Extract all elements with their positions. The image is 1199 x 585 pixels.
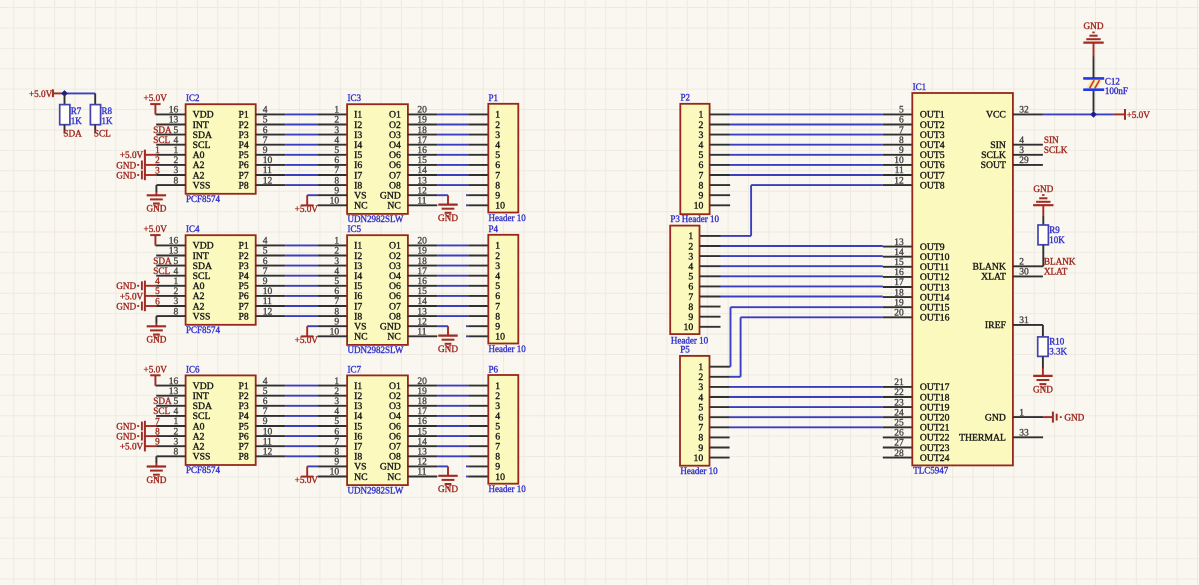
svg-text:20: 20 [894, 309, 904, 319]
svg-text:NC: NC [387, 472, 400, 483]
svg-text:28: 28 [894, 449, 904, 459]
svg-text:5: 5 [334, 277, 339, 287]
wire IC4 VSS pin 8 to ground [156, 316, 185, 326]
svg-text:Header 10: Header 10 [680, 466, 718, 476]
wire P3 pin 3 stub [700, 255, 721, 257]
wire IC1 SCLK pin 3 stub [1013, 154, 1043, 156]
svg-text:P2: P2 [681, 93, 691, 103]
wire IC1 OUT23 stub [883, 447, 913, 449]
wire P2 pin 6 to IC1 OUT6 [730, 164, 912, 166]
svg-text:1K: 1K [71, 116, 83, 126]
net label 4 [155, 277, 160, 287]
wire IC3 NC pin 10 stub [318, 204, 348, 206]
svg-text:GND: GND [116, 170, 136, 180]
svg-text:Header 10: Header 10 [671, 336, 709, 346]
wire P3 pin 7 stub [700, 296, 721, 298]
svg-text:22: 22 [894, 388, 904, 398]
svg-text:R8: R8 [102, 106, 113, 116]
power port +5.0V at IC2 VDD [144, 93, 168, 114]
net label SIN [1044, 135, 1059, 145]
wire IC6 P8 to IC7 I8 [256, 455, 347, 457]
svg-text:NC: NC [354, 201, 367, 212]
wire P3 pin 6 to IC1 OUT13 [721, 285, 913, 288]
svg-text:+5.0V: +5.0V [29, 89, 53, 99]
net label 7 [155, 417, 160, 427]
svg-text:8: 8 [334, 176, 339, 186]
wire IC2 address pin 2 [156, 164, 185, 166]
net label SCL (below R8) [94, 129, 111, 139]
svg-text:4: 4 [334, 407, 339, 417]
power port +5.0V (R7/R8 supply) [29, 89, 65, 99]
svg-text:GND: GND [438, 484, 458, 494]
wire IC2 SDA pin 5 stub [156, 134, 185, 136]
svg-text:PCF8574: PCF8574 [186, 325, 221, 335]
svg-text:2: 2 [334, 116, 339, 126]
svg-text:SCL: SCL [153, 406, 170, 416]
wire P3 pin 8 stub [700, 306, 721, 308]
wire IC3 O5 to P1 pin 5 [408, 154, 488, 156]
wire IC5 O4 to P4 pin 4 [408, 275, 488, 277]
svg-text:UDN2982SLW: UDN2982SLW [348, 214, 404, 224]
svg-text:IC5: IC5 [348, 224, 362, 234]
wire IC5 VS pin 9 [307, 325, 347, 327]
capacitor C12 100nF [1083, 76, 1128, 111]
svg-text:10: 10 [694, 201, 704, 212]
svg-text:GND: GND [116, 281, 136, 291]
svg-text:R7: R7 [71, 106, 82, 116]
svg-text:1: 1 [334, 106, 339, 116]
connector P1 Header 10 [488, 93, 526, 223]
wire IC2 P2 to IC3 I2 [256, 124, 347, 126]
wire IC3 O6 to P1 pin 6 [408, 164, 488, 166]
svg-text:23: 23 [894, 398, 904, 408]
net label SCL at IC2 [153, 135, 170, 145]
net label 2 [155, 156, 160, 166]
wire P3 pin 2 stub [700, 245, 721, 247]
wire P5 pin 7 stub [710, 426, 730, 428]
wire P3 pin 4 to IC1 OUT11 [721, 265, 913, 268]
svg-text:Header 10: Header 10 [489, 344, 527, 354]
wire P5 pin 3 to IC1 OUT17 [730, 386, 913, 388]
wire IC7 NC pin 10 stub [318, 476, 348, 478]
wire P3 pin 9 stub [700, 316, 721, 318]
wire IC6 INT pin 13 stub [156, 395, 185, 397]
wire P3 pin 4 stub [700, 265, 721, 267]
svg-text:NC: NC [387, 332, 400, 343]
driver IC3 UDN2982SLW [330, 93, 428, 224]
svg-text:1: 1 [334, 377, 339, 387]
wire IC2 SCL pin 4 stub [156, 144, 185, 146]
svg-text:SCL: SCL [153, 266, 170, 276]
svg-text:P8: P8 [238, 180, 248, 191]
wire IC6 address pin 1 [156, 425, 185, 427]
svg-text:12: 12 [894, 176, 904, 186]
wire P2 pin 3 stub [710, 134, 731, 136]
svg-text:PCF8574: PCF8574 [186, 194, 221, 204]
svg-text:P3: P3 [670, 214, 680, 224]
wire IC2 VSS pin 8 to ground [156, 185, 185, 195]
svg-text:IREF: IREF [985, 320, 1007, 331]
svg-text:NC: NC [387, 201, 400, 212]
svg-text:THERMAL: THERMAL [959, 433, 1006, 444]
svg-text:C12: C12 [1105, 76, 1120, 86]
power port GND at IC2 pin 2 [116, 160, 156, 171]
resistor R7 1K [60, 105, 83, 134]
driver IC5 UDN2982SLW [330, 224, 428, 355]
svg-text:GND: GND [1084, 21, 1104, 31]
net label 5 [155, 287, 160, 297]
wire P5 pin 2 stub [710, 376, 730, 378]
op-amp expander IC2 PCF8574 [169, 93, 273, 204]
svg-text:18: 18 [894, 288, 904, 298]
net label 9 [155, 438, 160, 448]
svg-text:SDA: SDA [153, 125, 172, 135]
wire C12 to ground [1093, 43, 1095, 78]
svg-text:9: 9 [899, 146, 904, 156]
svg-text:7: 7 [334, 166, 339, 176]
driver IC7 UDN2982SLW [330, 364, 428, 495]
svg-text:GND: GND [116, 160, 136, 170]
net label SCLK [1044, 145, 1068, 155]
wire IC2 P3 to IC3 I3 [256, 134, 347, 136]
wire IC1 THERMAL pin 33 stub [1013, 436, 1043, 438]
net label 1 [155, 146, 160, 156]
wire IC5 O8 to P4 pin 8 [408, 315, 488, 317]
svg-text:100nF: 100nF [1105, 86, 1128, 96]
wire IC5 O6 to P4 pin 6 [408, 295, 488, 297]
wire IC6 P3 to IC7 I3 [256, 405, 347, 407]
ground under IC6 [146, 467, 166, 485]
svg-text:10: 10 [694, 453, 704, 464]
wire P2 pin 1 stub [710, 113, 731, 115]
wire IC4 VDD pin 16 [155, 244, 185, 246]
wire IC3 O2 to P1 pin 2 [408, 124, 488, 126]
wire P1 pin 10 stub [466, 204, 488, 206]
power port GND at IC6 pin 1 [116, 421, 156, 432]
svg-text:IC4: IC4 [186, 224, 200, 234]
svg-text:IC3: IC3 [348, 93, 362, 103]
svg-text:SIN: SIN [1044, 135, 1059, 145]
svg-text:OUT16: OUT16 [920, 313, 950, 324]
svg-text:+5.0V: +5.0V [144, 224, 168, 234]
power port +5.0V at IC1 VCC [1114, 109, 1150, 120]
wire IC5 GND pin 12 to ground [408, 326, 448, 335]
svg-text:19: 19 [894, 298, 904, 308]
wire IC2 P8 to IC3 I8 [256, 184, 347, 186]
svg-text:P5: P5 [680, 345, 690, 355]
ground at IC3 GND [438, 205, 458, 223]
svg-text:+5.0V: +5.0V [120, 291, 144, 301]
wire IC6 P1 to IC7 I1 [256, 385, 347, 387]
svg-text:XLAT: XLAT [1044, 267, 1068, 277]
net label SDA at IC4 [153, 256, 172, 266]
ground at IC5 GND [438, 336, 458, 354]
wire P2 pin 5 to IC1 OUT5 [730, 154, 912, 156]
power port +5.0V at IC6 VDD [144, 364, 168, 385]
wire IC1 GND pin 1 [1013, 416, 1043, 418]
resistor R8 1K [90, 105, 113, 134]
wire IC4 P3 to IC5 I3 [256, 265, 347, 267]
wire IC4 P1 to IC5 I1 [256, 244, 347, 246]
wire IC3 O7 to P1 pin 7 [408, 174, 488, 176]
resistor R9 10K [1038, 225, 1065, 245]
resistor R10 3.3K [1038, 337, 1068, 357]
wire IC6 address pin 2 [156, 435, 185, 437]
svg-text:6: 6 [334, 427, 339, 437]
wire IC4 P7 to IC5 I7 [256, 305, 347, 307]
svg-text:11: 11 [895, 166, 904, 176]
svg-text:3: 3 [334, 257, 339, 267]
wire P5 pin 1 to IC1 OUT15 [730, 307, 913, 367]
wire IC4 P6 to IC5 I6 [256, 295, 347, 297]
wire IC2 P7 to IC3 I7 [256, 174, 347, 176]
wire P2 pin 7 to IC1 OUT7 [730, 174, 912, 176]
wire R8 pin 1 [94, 93, 96, 104]
wire IC1 VCC pin 32 to +5.0V [1013, 113, 1114, 115]
wire IC1 BLANK pin 2 stub [1013, 265, 1043, 267]
wire IC3 NC pin 11 stub [408, 204, 437, 206]
svg-text:VSS: VSS [193, 180, 211, 191]
power port GND at IC6 pin 2 [116, 431, 156, 442]
wire P2 pin 8 stub [710, 184, 731, 186]
wire IC2 address pin 1 [156, 154, 185, 156]
wire IC7 VS pin 9 [307, 465, 347, 467]
wire P1 pin 9 stub [466, 194, 488, 196]
wire P5 pin 6 stub [710, 416, 730, 418]
wire P2 pin 2 stub [710, 124, 731, 126]
svg-text:P4: P4 [489, 224, 499, 234]
wire P3 pin 5 to IC1 OUT12 [721, 275, 913, 278]
net label SDA (below R7) [63, 129, 82, 139]
svg-text:GND: GND [1033, 384, 1053, 394]
wire IC4 P2 to IC5 I2 [256, 255, 347, 257]
svg-text:P8: P8 [238, 452, 248, 463]
wire IC3 VS pin 9 [307, 194, 347, 196]
wire P5 pin 1 stub [710, 366, 730, 368]
power port +5.0V at IC2 pin 1 [120, 150, 156, 161]
wire IC5 NC pin 11 stub [408, 335, 437, 337]
wire P2 pin 6 stub [710, 164, 731, 166]
svg-text:XLAT: XLAT [981, 272, 1006, 283]
svg-text:TLC5947: TLC5947 [913, 466, 948, 476]
svg-text:6: 6 [334, 156, 339, 166]
wire IC1 SOUT pin 29 stub [1013, 164, 1043, 166]
wire P6 pin 9 stub [466, 465, 488, 467]
svg-text:3: 3 [334, 126, 339, 136]
wire IC6 SCL pin 4 stub [156, 415, 185, 417]
wire IC6 P7 to IC7 I7 [256, 445, 347, 447]
svg-text:VSS: VSS [193, 311, 211, 322]
net label 6 [155, 297, 160, 307]
wire R10 to ground [1042, 356, 1044, 376]
svg-text:+5.0V: +5.0V [120, 442, 144, 452]
ground above R9 [1033, 184, 1054, 205]
wire IC2 P6 to IC3 I6 [256, 164, 347, 166]
svg-text:6: 6 [899, 116, 904, 126]
wire P5 pin 6 to IC1 OUT20 [730, 416, 913, 418]
wire IC4 SDA pin 5 stub [156, 265, 185, 267]
svg-text:8: 8 [334, 307, 339, 317]
svg-text:1: 1 [334, 237, 339, 247]
wire P5 pin 8 stub [710, 436, 730, 438]
svg-text:VCC: VCC [986, 110, 1006, 121]
power port +5.0V at IC6 pin 3 [120, 441, 156, 452]
wire P5 pin 5 stub [710, 406, 730, 408]
svg-text:Header 10: Header 10 [489, 484, 527, 494]
svg-text:10: 10 [495, 201, 505, 212]
svg-text:Header 10: Header 10 [682, 214, 720, 224]
wire IC7 O4 to P6 pin 4 [408, 415, 488, 417]
wire +5.0V to resistors [65, 92, 96, 94]
svg-text:Header 10: Header 10 [489, 213, 527, 223]
wire P5 pin 7 to IC1 OUT21 [730, 426, 913, 428]
svg-text:R10: R10 [1049, 337, 1065, 347]
svg-text:P6: P6 [489, 364, 499, 374]
power port +5.0V at IC3 VS [295, 195, 319, 214]
svg-text:SOUT: SOUT [981, 160, 1006, 171]
svg-text:8: 8 [899, 136, 904, 146]
wire IC6 P2 to IC7 I2 [256, 395, 347, 397]
connector P4 Header 10 [488, 224, 526, 354]
svg-text:4: 4 [334, 136, 339, 146]
svg-text:UDN2982SLW: UDN2982SLW [348, 345, 404, 355]
svg-text:BLANK: BLANK [1044, 256, 1076, 266]
wire P4 pin 9 stub [466, 325, 488, 327]
wire IC4 address pin 1 [156, 285, 185, 287]
svg-text:2: 2 [334, 247, 339, 257]
wire P2 pin 3 to IC1 OUT3 [730, 134, 912, 136]
svg-text:IC1: IC1 [913, 82, 927, 92]
net label SDA at IC2 [153, 125, 172, 135]
wire IC1 OUT22 stub [883, 436, 913, 438]
wire IC3 O1 to P1 pin 1 [408, 113, 488, 115]
svg-text:15: 15 [894, 258, 904, 268]
svg-text:+5.0V: +5.0V [1127, 110, 1151, 120]
svg-text:5: 5 [334, 146, 339, 156]
wire IC5 O3 to P4 pin 3 [408, 265, 488, 267]
svg-text:IC6: IC6 [186, 364, 200, 374]
svg-text:SDA: SDA [153, 396, 172, 406]
wire P2 pin 1 to IC1 OUT1 [730, 113, 912, 115]
svg-text:5: 5 [334, 417, 339, 427]
wire IC2 P5 to IC3 I5 [256, 154, 347, 156]
wire IC7 O1 to P6 pin 1 [408, 385, 488, 387]
svg-text:GND: GND [1033, 184, 1053, 194]
svg-text:GND: GND [116, 432, 136, 442]
wire IC6 P5 to IC7 I5 [256, 425, 347, 427]
wire IC7 O2 to P6 pin 2 [408, 395, 488, 397]
net label SDA at IC6 [153, 396, 172, 406]
power port +5.0V at IC5 VS [295, 326, 319, 345]
svg-text:5: 5 [899, 106, 904, 116]
wire P5 pin 4 stub [710, 396, 730, 398]
svg-text:10K: 10K [1049, 235, 1065, 245]
svg-text:+5.0V: +5.0V [144, 364, 168, 374]
svg-text:3.3K: 3.3K [1049, 347, 1067, 357]
wire IC7 O5 to P6 pin 5 [408, 425, 488, 427]
op-amp expander IC6 PCF8574 [169, 364, 273, 475]
svg-text:GND: GND [116, 421, 136, 431]
wire P4 pin 10 stub [466, 335, 488, 337]
svg-text:SCLK: SCLK [1044, 145, 1068, 155]
connector P6 Header 10 [488, 364, 526, 494]
wire IC4 P5 to IC5 I5 [256, 285, 347, 287]
wire IC4 P8 to IC5 I8 [256, 315, 347, 317]
wire IC5 O5 to P4 pin 5 [408, 285, 488, 287]
net label 8 [155, 427, 160, 437]
svg-text:10: 10 [495, 332, 505, 343]
svg-text:P8: P8 [238, 311, 248, 322]
wire IC6 P4 to IC7 I4 [256, 415, 347, 417]
wire IC6 VDD pin 16 [155, 385, 185, 387]
wire P2 pin 5 stub [710, 154, 731, 156]
wire P2 pin 10 stub [710, 204, 731, 206]
wire P3 pin 10 stub [700, 326, 721, 328]
wire IC4 address pin 2 [156, 295, 185, 297]
wire P2 pin 4 to IC1 OUT4 [730, 144, 912, 146]
svg-text:26: 26 [894, 429, 904, 439]
ground under IC2 [146, 195, 166, 213]
svg-text:10: 10 [495, 472, 505, 483]
wire IC4 P4 to IC5 I4 [256, 275, 347, 277]
ground under IC4 [146, 326, 166, 344]
wire IC4 INT pin 13 stub [156, 255, 185, 257]
wire P2 pin 4 stub [710, 144, 731, 146]
svg-text:+5.0V: +5.0V [295, 204, 319, 214]
wire IC6 address pin 3 [156, 445, 185, 447]
svg-text:7: 7 [899, 126, 904, 136]
power port GND at IC2 pin 3 [116, 170, 156, 181]
wire P3 pin 2 to IC1 OUT9 [721, 245, 913, 248]
svg-text:6: 6 [334, 287, 339, 297]
svg-text:+5.0V: +5.0V [120, 150, 144, 160]
svg-text:IC7: IC7 [348, 364, 362, 374]
connector P2 Header 10 [680, 93, 719, 224]
svg-text:GND: GND [146, 204, 166, 214]
wire IC2 P1 to IC3 I1 [256, 113, 347, 115]
wire P5 pin 9 stub [710, 447, 730, 449]
svg-text:GND: GND [985, 412, 1006, 423]
wire IC3 O8 to P1 pin 8 [408, 184, 488, 186]
wire IC2 P4 to IC3 I4 [256, 144, 347, 146]
power port GND at IC1 pin 1 [1043, 412, 1085, 423]
ground above C12 [1083, 21, 1104, 42]
wire IC1 OUT24 stub [883, 457, 913, 459]
svg-text:GND: GND [438, 213, 458, 223]
svg-text:SCL: SCL [94, 129, 111, 139]
svg-text:GND: GND [146, 335, 166, 345]
wire IC5 O2 to P4 pin 2 [408, 255, 488, 257]
power port +5.0V at IC4 pin 2 [120, 291, 156, 302]
ground at IC7 GND [438, 476, 458, 494]
wire IC2 VDD pin 16 [155, 113, 185, 115]
wire IC6 P6 to IC7 I6 [256, 435, 347, 437]
svg-text:GND: GND [438, 344, 458, 354]
net label SCL at IC6 [153, 406, 170, 416]
svg-text:4: 4 [334, 267, 339, 277]
wire IC1 SIN pin 4 stub [1013, 144, 1043, 146]
svg-text:13: 13 [894, 238, 904, 248]
wire IC1 IREF pin 31 to R10 [1013, 325, 1043, 337]
wire IC3 GND pin 12 to ground [408, 195, 448, 204]
wire IC7 O7 to P6 pin 7 [408, 445, 488, 447]
power port +5.0V at IC7 VS [295, 466, 319, 485]
wire IC1 XLAT pin 30 stub [1013, 275, 1043, 277]
svg-text:PCF8574: PCF8574 [186, 465, 221, 475]
svg-text:OUT24: OUT24 [920, 453, 950, 464]
wire P3 pin 7 to IC1 OUT14 [721, 296, 913, 299]
LED driver IC1 TLC5947 [894, 82, 1029, 476]
